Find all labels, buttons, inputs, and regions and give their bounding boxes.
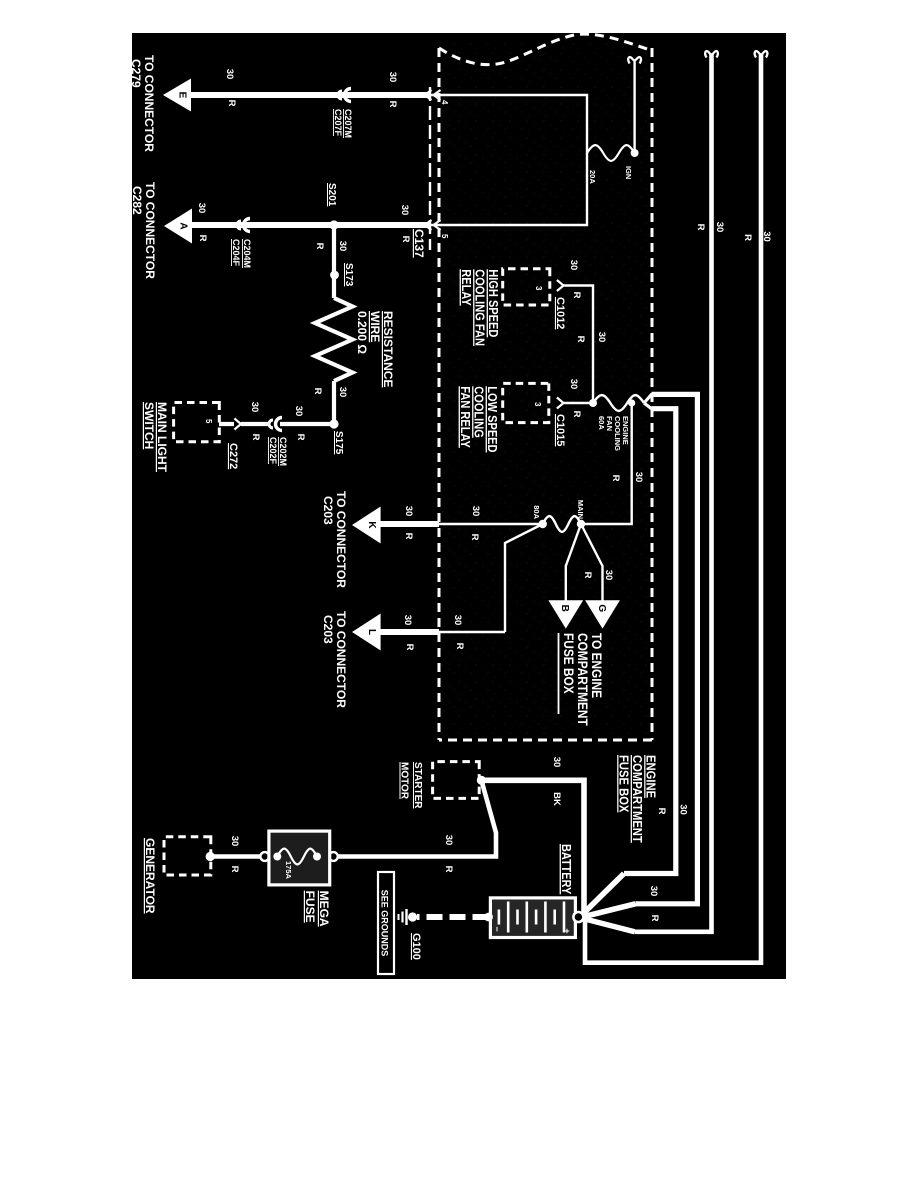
svg-text:R: R bbox=[403, 533, 414, 540]
connector arrow L bbox=[352, 614, 381, 651]
label C202M C202F bbox=[268, 437, 288, 466]
label LOW SPEED COOLING FAN RELAY bbox=[458, 386, 500, 452]
label MAIN bbox=[576, 500, 585, 519]
svg-text:3: 3 bbox=[533, 402, 542, 407]
wire (C1012 to 60A link) bbox=[564, 286, 594, 404]
svg-text:R: R bbox=[400, 236, 411, 243]
label 30 R (E wire upper) bbox=[387, 72, 398, 108]
label 30 R (mega fuse feed) bbox=[443, 835, 454, 873]
svg-text:30: 30 bbox=[337, 387, 348, 398]
svg-text:30: 30 bbox=[249, 402, 260, 413]
svg-text:WIRE: WIRE bbox=[368, 311, 382, 342]
thick feed wire B (60A fork lower branch to battery) bbox=[579, 409, 675, 918]
wire A (C137 pin 5 to connector A) bbox=[192, 224, 439, 226]
svg-text:S173: S173 bbox=[343, 263, 354, 287]
label S175 bbox=[333, 431, 344, 455]
battery + label bbox=[562, 928, 572, 933]
svg-text:20A: 20A bbox=[588, 170, 597, 184]
label 20A bbox=[588, 170, 597, 184]
svg-text:30: 30 bbox=[399, 205, 410, 216]
svg-text:30: 30 bbox=[229, 836, 240, 847]
battery BATTERY bbox=[490, 898, 575, 938]
svg-text:FUSE: FUSE bbox=[303, 891, 317, 923]
svg-text:S201: S201 bbox=[326, 183, 337, 207]
svg-text:E: E bbox=[177, 92, 188, 99]
label TO CONNECTOR C279 bbox=[129, 55, 156, 152]
svg-text:30: 30 bbox=[293, 406, 304, 417]
svg-text:60A: 60A bbox=[597, 416, 606, 430]
svg-text:R: R bbox=[469, 534, 480, 541]
relay LOW SPEED COOLING FAN RELAY bbox=[503, 383, 549, 422]
svg-text:BATTERY: BATTERY bbox=[559, 844, 574, 894]
svg-text:FAN: FAN bbox=[605, 416, 614, 431]
wire 30 R bus (top, to battery via right riser) bbox=[578, 51, 767, 963]
svg-text:TO CONNECTOR: TO CONNECTOR bbox=[142, 55, 156, 152]
svg-text:R: R bbox=[582, 572, 593, 579]
label 175A bbox=[284, 861, 293, 880]
svg-text:C204F: C204F bbox=[231, 239, 241, 267]
svg-text:R: R bbox=[571, 292, 582, 299]
svg-text:30: 30 bbox=[551, 757, 562, 768]
label TO CONNECTOR C203 (K) bbox=[321, 491, 348, 588]
label BATTERY bbox=[559, 844, 574, 894]
label S201 bbox=[326, 183, 337, 207]
label TO ENGINE COMPARTMENT FUSE BOX bbox=[559, 633, 605, 726]
svg-text:30: 30 bbox=[568, 379, 579, 390]
svg-text:FUSE BOX: FUSE BOX bbox=[561, 633, 577, 694]
svg-text:G100: G100 bbox=[410, 933, 422, 960]
svg-text:ENGINE: ENGINE bbox=[621, 416, 630, 445]
connector C202M C202F bbox=[269, 418, 282, 431]
svg-text:L: L bbox=[366, 629, 377, 635]
svg-text:C202F: C202F bbox=[268, 437, 278, 465]
label 30 R (S175 drop) bbox=[293, 406, 306, 441]
svg-text:R: R bbox=[387, 101, 398, 108]
svg-text:C203: C203 bbox=[321, 615, 335, 644]
scan speckle texture (fuse box interior) bbox=[439, 43, 652, 740]
connector C1012 symbol bbox=[557, 280, 564, 291]
svg-text:R: R bbox=[454, 643, 465, 650]
pin 5 (main light switch) bbox=[204, 419, 213, 424]
svg-text:30: 30 bbox=[337, 241, 348, 252]
label S173 bbox=[343, 263, 354, 287]
connector arrow E bbox=[163, 79, 191, 112]
svg-text:BK: BK bbox=[551, 792, 562, 806]
connector C204M C204F bbox=[237, 219, 250, 232]
svg-text:R: R bbox=[226, 100, 237, 107]
svg-text:5: 5 bbox=[440, 234, 449, 239]
svg-text:30: 30 bbox=[596, 332, 607, 343]
terminal (mega fuse top) bbox=[329, 852, 338, 861]
svg-text:30: 30 bbox=[224, 69, 235, 80]
label C137 bbox=[412, 229, 426, 258]
label 30 R (B G wires) bbox=[582, 570, 614, 581]
svg-text:C279: C279 bbox=[132, 59, 143, 88]
svg-text:C202M: C202M bbox=[278, 437, 288, 466]
svg-text:A: A bbox=[178, 222, 189, 229]
thick feed wire A (60A fork upper branch to battery) bbox=[580, 394, 698, 917]
splice S173 bbox=[330, 271, 339, 280]
label 80A bbox=[532, 505, 541, 519]
svg-text:30: 30 bbox=[761, 231, 772, 242]
pin 4 (C137) bbox=[440, 100, 449, 105]
svg-text:80A: 80A bbox=[532, 505, 541, 519]
svg-text:C207F: C207F bbox=[333, 109, 343, 137]
label 30 R (feed wire B) bbox=[656, 804, 689, 815]
svg-text:R: R bbox=[742, 234, 753, 241]
pin 5 (C137) bbox=[440, 234, 449, 239]
svg-text:30: 30 bbox=[470, 506, 481, 517]
label 30 R (battery feeds) bbox=[648, 886, 660, 922]
fork symbols (pin 4) bbox=[425, 90, 441, 100]
connector C1015 symbol bbox=[557, 398, 564, 409]
connector C272 symbol bbox=[234, 419, 241, 430]
label C272 bbox=[227, 443, 239, 469]
junction (60A link bottom) bbox=[589, 399, 597, 407]
pin 3 (high speed relay) bbox=[534, 286, 543, 291]
svg-text:K: K bbox=[366, 521, 377, 529]
svg-text:MEGA: MEGA bbox=[317, 891, 331, 927]
wire (mega fuse to generator) bbox=[212, 854, 260, 859]
svg-text:R: R bbox=[695, 224, 706, 231]
svg-text:SEE GROUNDS: SEE GROUNDS bbox=[380, 890, 390, 957]
svg-text:30: 30 bbox=[678, 804, 689, 815]
fuse IGN 20A bbox=[587, 145, 635, 161]
wire label 30 R (second bus) bbox=[695, 222, 725, 233]
svg-text:+: + bbox=[562, 928, 572, 933]
label 30 R (K wire upper) bbox=[469, 506, 481, 541]
svg-text:FUSE BOX: FUSE BOX bbox=[616, 755, 631, 813]
svg-text:COOLING: COOLING bbox=[613, 416, 622, 451]
label 30 R (A wire upper) bbox=[399, 205, 411, 243]
fusible link ENGINE COOLING FAN 60A bbox=[593, 394, 652, 410]
svg-text:30: 30 bbox=[196, 203, 207, 214]
svg-text:R: R bbox=[314, 243, 325, 250]
svg-text:R: R bbox=[197, 235, 208, 242]
wire L (80A junction to connector L) bbox=[380, 524, 543, 632]
svg-text:C282: C282 bbox=[132, 186, 144, 215]
label ENGINE COOLING FAN 60A bbox=[597, 416, 630, 451]
svg-text:C204M: C204M bbox=[242, 239, 252, 268]
svg-text:R: R bbox=[443, 866, 454, 873]
svg-text:R: R bbox=[250, 434, 261, 441]
svg-text:MAIN LIGHT: MAIN LIGHT bbox=[155, 402, 169, 473]
wire (C1015 to 60A link) bbox=[564, 402, 594, 404]
wire (MAIN to connector G) bbox=[581, 524, 603, 601]
label MAIN LIGHT SWITCH bbox=[142, 402, 169, 473]
wire 30 BK (starter to battery +) bbox=[481, 780, 584, 917]
label RESISTANCE WIRE 0.200 ohm bbox=[355, 311, 395, 387]
label MEGA FUSE bbox=[303, 891, 331, 927]
junction (60A link tap to MAIN feed) bbox=[628, 399, 635, 406]
svg-text:SWITCH: SWITCH bbox=[142, 402, 156, 449]
wire battery - to ground G100 (dashed) bbox=[417, 914, 489, 920]
label 30 R (generator wire) bbox=[229, 836, 240, 873]
svg-text:B: B bbox=[559, 605, 570, 612]
label 30 R (E wire lower) bbox=[224, 69, 237, 107]
splice S201 bbox=[329, 220, 338, 229]
svg-text:R: R bbox=[312, 388, 323, 395]
motor STARTER MOTOR bbox=[433, 762, 480, 799]
svg-text:TO CONNECTOR: TO CONNECTOR bbox=[334, 491, 348, 588]
junction (MAIN fuse bottom) bbox=[539, 520, 547, 528]
label 30 R (C1015 drop) bbox=[568, 379, 582, 418]
svg-text:30: 30 bbox=[402, 615, 413, 626]
svg-text:30: 30 bbox=[403, 506, 414, 517]
svg-text:RELAY: RELAY bbox=[459, 269, 474, 305]
pin 3 (low speed relay) bbox=[533, 402, 542, 407]
svg-text:−: − bbox=[492, 926, 502, 931]
label ENGINE COMPARTMENT FUSE BOX (outside right) bbox=[616, 755, 658, 843]
wire (60A tap to MAIN fuse) bbox=[585, 403, 632, 524]
label TO CONNECTOR C203 (L) bbox=[321, 611, 348, 708]
label C204M C204F bbox=[231, 239, 252, 268]
junction (generator terminal) bbox=[206, 852, 215, 861]
wire label 30 R (top bus) bbox=[742, 231, 772, 242]
svg-text:30: 30 bbox=[443, 835, 454, 846]
wire 30 R bus (second, to battery) bbox=[580, 51, 718, 932]
label 30 R (L wire upper) bbox=[452, 615, 465, 650]
svg-text:30: 30 bbox=[633, 472, 644, 483]
svg-text:GENERATOR: GENERATOR bbox=[143, 838, 157, 914]
label IGN bbox=[624, 166, 633, 179]
junction (starter terminal) bbox=[477, 776, 486, 785]
svg-text:C1012: C1012 bbox=[554, 297, 566, 329]
label 30 R (K wire lower) bbox=[403, 506, 414, 540]
connector arrow B bbox=[548, 600, 583, 628]
svg-text:R: R bbox=[656, 808, 667, 815]
label 30 BK bbox=[551, 757, 562, 806]
resistance wire zigzag bbox=[315, 275, 353, 424]
splice S175 bbox=[329, 419, 338, 428]
svg-text:5: 5 bbox=[204, 419, 213, 424]
junction (IGN wire / fuse) bbox=[631, 149, 639, 157]
wire (MAIN to connector B) bbox=[566, 524, 581, 601]
label G100 bbox=[410, 933, 422, 960]
fork symbols (pin 5) bbox=[425, 220, 441, 230]
svg-text:TO CONNECTOR: TO CONNECTOR bbox=[143, 182, 157, 279]
junction (MAIN fuse top) bbox=[577, 520, 585, 528]
svg-text:R: R bbox=[295, 434, 306, 441]
label 30 R (C202 drop) bbox=[249, 402, 261, 441]
wire IGN feed (from left edge) bbox=[628, 57, 641, 153]
svg-text:G: G bbox=[596, 604, 607, 612]
label 30 R (S201 branch) bbox=[314, 241, 348, 252]
svg-text:30: 30 bbox=[603, 570, 614, 581]
label C207M C207F bbox=[333, 109, 353, 138]
battery cells bbox=[499, 902, 564, 933]
svg-text:30: 30 bbox=[568, 260, 579, 271]
connector C207M C207F bbox=[338, 89, 351, 102]
fuse MAIN 80A bbox=[543, 516, 581, 532]
label HIGH SPEED COOLING FAN RELAY bbox=[459, 269, 501, 346]
svg-text:C272: C272 bbox=[227, 443, 239, 469]
svg-text:R: R bbox=[571, 411, 582, 418]
engine compartment fuse box dashed outline bbox=[439, 34, 652, 740]
wire K (MAIN 80A to connector K) bbox=[380, 523, 543, 525]
C137 bracket line bbox=[429, 87, 431, 250]
wire (starter junction to mega fuse) bbox=[337, 780, 496, 856]
svg-text:FAN RELAY: FAN RELAY bbox=[458, 386, 473, 448]
svg-text:C137: C137 bbox=[412, 229, 426, 258]
connector arrow A bbox=[164, 209, 192, 244]
svg-text:MAIN: MAIN bbox=[576, 500, 585, 519]
svg-text:C1015: C1015 bbox=[554, 414, 566, 446]
note SEE GROUNDS bbox=[378, 872, 394, 974]
svg-text:R: R bbox=[575, 336, 586, 343]
label 30 R (L wire lower) bbox=[402, 615, 415, 651]
label C1012 bbox=[554, 297, 566, 329]
svg-text:RESISTANCE: RESISTANCE bbox=[381, 311, 395, 387]
label GENERATOR bbox=[143, 838, 157, 914]
wire (S201 branch to S173) bbox=[332, 225, 336, 275]
switch MAIN LIGHT SWITCH bbox=[174, 403, 220, 442]
svg-text:R: R bbox=[229, 866, 240, 873]
wiring diagram (rotated 90deg) bbox=[132, 33, 786, 979]
connector C137 block (fuse box internal) bbox=[439, 95, 587, 225]
terminal battery - junction bbox=[484, 913, 493, 922]
label TO CONNECTOR C282 bbox=[130, 182, 157, 279]
svg-text:R: R bbox=[649, 915, 660, 922]
relay HIGH SPEED COOLING FAN RELAY bbox=[503, 269, 550, 305]
wire (S175 to main light switch) bbox=[219, 422, 334, 426]
label 30 R (MAIN feed riser) bbox=[610, 472, 644, 483]
ground G100 symbol bbox=[399, 909, 418, 925]
label 30 R (after zigzag) bbox=[312, 387, 348, 398]
svg-text:30: 30 bbox=[387, 72, 398, 83]
svg-text:30: 30 bbox=[452, 615, 463, 626]
label 30 R (C1012 drop) bbox=[568, 260, 582, 299]
fuse MEGA FUSE 175A bbox=[269, 831, 330, 885]
svg-text:4: 4 bbox=[440, 100, 449, 105]
svg-text:IGN: IGN bbox=[624, 166, 633, 179]
label STARTER MOTOR bbox=[399, 762, 424, 809]
svg-text:30: 30 bbox=[714, 222, 725, 233]
terminal (mega fuse bottom) bbox=[260, 852, 269, 861]
battery - label bbox=[492, 926, 502, 931]
wire E (C137 pin 4 to connector E) bbox=[191, 94, 439, 96]
connector arrow K bbox=[352, 507, 381, 544]
generator GENERATOR bbox=[164, 837, 211, 875]
label 30 R (C1012 run) bbox=[575, 332, 607, 343]
svg-text:C203: C203 bbox=[321, 496, 335, 525]
terminal battery + (open circle) bbox=[573, 912, 583, 922]
connector arrow G bbox=[585, 600, 620, 628]
label C1015 bbox=[554, 414, 566, 446]
svg-text:MOTOR: MOTOR bbox=[399, 762, 410, 800]
svg-text:TO CONNECTOR: TO CONNECTOR bbox=[334, 611, 348, 708]
svg-text:S175: S175 bbox=[333, 431, 344, 455]
svg-text:3: 3 bbox=[534, 286, 543, 291]
svg-text:STARTER: STARTER bbox=[412, 762, 423, 809]
svg-text:R: R bbox=[404, 644, 415, 651]
svg-text:C207M: C207M bbox=[343, 109, 353, 138]
label 30 R (A wire lower) bbox=[196, 203, 208, 242]
svg-text:175A: 175A bbox=[284, 861, 293, 880]
svg-text:0.200 Ω: 0.200 Ω bbox=[355, 311, 369, 354]
svg-text:30: 30 bbox=[648, 886, 659, 897]
svg-text:R: R bbox=[610, 475, 621, 482]
